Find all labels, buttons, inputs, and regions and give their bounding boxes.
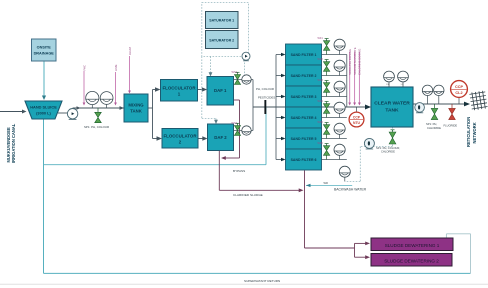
tank: sludge dewatering 1: [371, 238, 453, 251]
wire: lime dosing line: [114, 64, 118, 105]
instrument: DAF 1 outlet meter: [242, 75, 251, 84]
tank: sand filter 1: [286, 44, 322, 65]
svg-text:SATURATOR 1: SATURATOR 1: [209, 18, 234, 22]
svg-text:ONSITE: ONSITE: [37, 46, 52, 50]
svg-text:WF1: WF1: [318, 37, 324, 40]
pump P2: saturator recycle pump: [242, 52, 250, 61]
svg-text:SATURATOR 2: SATURATOR 2: [209, 38, 234, 42]
tank: sand filter 2: [286, 65, 322, 86]
wire: onsite drainage downpipe: [42, 61, 46, 100]
svg-text:SUPERNATANT RETURN: SUPERNATANT RETURN: [244, 279, 280, 283]
label: fluoride dosing: [444, 123, 458, 127]
svg-text:WF2: WF2: [318, 58, 324, 61]
instrument: sand filter 4 outlet meter: [334, 102, 345, 117]
svg-text:SP1: PH, COLOUR: SP1: PH, COLOUR: [84, 125, 109, 129]
svg-text:SODA ASH DOSING: SODA ASH DOSING: [348, 49, 352, 75]
wire: soda ash dosing line: [348, 49, 352, 105]
pump P3: high lift pump: [415, 103, 425, 113]
svg-text:LIME: LIME: [114, 64, 118, 71]
label: WF3: [318, 79, 324, 82]
label: bypass: [233, 169, 245, 173]
svg-text:PH, COLOUR: PH, COLOUR: [256, 87, 274, 91]
wire: sand filter feed header: [276, 53, 286, 162]
label: WS1: [232, 70, 238, 74]
svg-text:NTU: NTU: [353, 121, 361, 125]
svg-text:WF5: WF5: [318, 121, 324, 124]
valve WF2: sand filter 2 outlet valve: [323, 60, 329, 76]
tank: sand filter 6: [286, 149, 322, 170]
label: WF6: [318, 142, 324, 145]
svg-text:SAND FILTER 1: SAND FILTER 1: [291, 53, 317, 57]
node: critical control point CCP NTU: [349, 107, 364, 127]
label: WF1: [318, 37, 324, 40]
tank: flocculator 1: [161, 80, 198, 102]
tank: sand filter 4: [286, 107, 322, 128]
pump P4: backwash pump: [364, 138, 374, 149]
valve V1: raw water sample valve: [95, 108, 102, 123]
instrument: sand filter 1 outlet meter: [334, 39, 345, 54]
svg-text:FR: FR: [387, 84, 390, 86]
valve WF6: sand filter 6 outlet valve: [323, 144, 329, 160]
svg-text:SAND FILTER 2: SAND FILTER 2: [291, 74, 317, 78]
instrument: treated water meter 2: [434, 85, 444, 104]
wire: backwash supply dashed from clear water tank: [345, 127, 393, 181]
instrument: DAF 2 outlet meter: [242, 126, 251, 135]
svg-text:SAND FILTER 5: SAND FILTER 5: [291, 137, 317, 141]
label: settled water quality: [256, 87, 275, 100]
wire: alum dosing line to mixing tank: [128, 47, 132, 94]
instrument: raw water meter 2: [100, 92, 113, 108]
valve WS2: DAF 2 outlet valve: [234, 123, 240, 135]
valve V11: chloride dosing valve: [431, 104, 438, 120]
tank: DAF 2: [208, 124, 234, 151]
wire: clarified sludge main: [219, 151, 303, 193]
svg-text:HAND SLUICE: HAND SLUICE: [30, 105, 57, 110]
svg-text:BYPASS: BYPASS: [233, 169, 245, 173]
label: irrigation canal source: [6, 123, 16, 163]
node: sample point marker on settled water main: [264, 100, 266, 114]
tank: sand filter 3: [286, 86, 322, 107]
node: reticulation network symbol: [469, 90, 488, 110]
valve WF1: sand filter 1 outlet valve: [323, 39, 329, 55]
svg-text:SLUDGE DEWATERING 1: SLUDGE DEWATERING 1: [385, 243, 440, 248]
instrument: clear water tank level meter 1: [384, 71, 395, 87]
label: backwash water: [334, 188, 367, 192]
tank: mixing tank: [124, 94, 148, 122]
svg-text:MIXING: MIXING: [128, 103, 144, 108]
label: WF4: [318, 100, 324, 103]
svg-text:PESTICIDES: PESTICIDES: [258, 95, 275, 99]
svg-text:CHLORIDE: CHLORIDE: [427, 126, 441, 130]
svg-text:TANK: TANK: [130, 109, 143, 114]
instrument: sand filter 5 outlet meter: [334, 123, 345, 138]
wire: DAF 1 outlet: [234, 79, 254, 81]
svg-text:DAF 1: DAF 1: [214, 88, 227, 93]
svg-text:SP1: PH, COLOUR,: SP1: PH, COLOUR,: [376, 146, 400, 150]
valve V12: fluoride dosing valve: [449, 104, 456, 120]
wire: backwash water line: [306, 184, 352, 187]
svg-text:SAND FILTER 6: SAND FILTER 6: [291, 158, 317, 162]
instrument: clear water tank level meter 2: [398, 71, 409, 87]
svg-text:WS2: WS2: [232, 121, 238, 125]
svg-text:FLOCCULATOR: FLOCCULATOR: [162, 85, 196, 90]
instrument: sand filter 6 outlet meter: [334, 144, 345, 159]
label: supernatant return: [244, 279, 280, 283]
wire: clarified sludge from DAF 1: [221, 100, 240, 160]
svg-text:NETWORK: NETWORK: [472, 122, 477, 143]
wire: DAF 2 outlet: [234, 130, 254, 132]
svg-text:WF4: WF4: [318, 100, 324, 103]
valve WS1: DAF 1 outlet valve: [234, 72, 240, 84]
svg-text:SODIUM ALUMINATE: SODIUM ALUMINATE: [353, 47, 357, 75]
tank: onsite drainage: [32, 39, 57, 61]
svg-text:TANK: TANK: [385, 108, 399, 114]
svg-text:CL2: CL2: [455, 91, 462, 95]
valve WF4: sand filter 4 outlet valve: [323, 102, 329, 118]
svg-text:RETICULATION: RETICULATION: [466, 117, 471, 147]
tank: flocculator 2: [162, 129, 198, 149]
wire: page footer rule: [0, 283, 488, 285]
label: WS2: [232, 121, 238, 125]
wire: treated water line to reticulation: [413, 102, 470, 107]
wire: bypass line: [44, 107, 267, 165]
label: chloride dosing: [426, 122, 441, 130]
wire: supernatant return line: [44, 119, 471, 273]
tank: sludge dewatering 2: [371, 254, 452, 267]
tank: hand sluice (raw water inlet works): [25, 101, 62, 119]
label: WR: [324, 181, 328, 185]
label: backwash sample point: [376, 146, 400, 154]
instrument: sand filter 2 outlet meter: [334, 60, 345, 75]
instrument: sand filter 3 outlet meter: [334, 81, 345, 96]
svg-text:SAND FILTER 3: SAND FILTER 3: [291, 95, 317, 99]
wire: raw water main (sluice to mixing tank): [58, 106, 124, 113]
svg-text:DAF 2: DAF 2: [214, 135, 227, 140]
instrument: treated water meter 1: [422, 85, 432, 104]
svg-text:BACKWASH WATER: BACKWASH WATER: [334, 188, 367, 192]
svg-text:WF6: WF6: [318, 142, 324, 145]
wire: sand filter outlet lines and collector header: [322, 55, 347, 160]
tank: sand filter 5: [286, 128, 322, 149]
wire: settled water main to clear water tank: [253, 105, 371, 110]
svg-text:CHLORINE DOSING: CHLORINE DOSING: [358, 49, 362, 75]
svg-text:SAND FILTER 4: SAND FILTER 4: [291, 116, 317, 120]
label: sample point SP1: [84, 125, 109, 129]
wire: polymer dosing line: [353, 47, 357, 105]
svg-text:WS1: WS1: [232, 70, 238, 74]
svg-text:CLEAR WATER: CLEAR WATER: [374, 101, 410, 107]
svg-text:SLUDGE DEWATERING 2: SLUDGE DEWATERING 2: [384, 258, 439, 263]
wire: DAF outlet collector: [252, 80, 254, 131]
svg-text:FLUORIDE: FLUORIDE: [444, 123, 458, 127]
wire: saturator recycle dashed loop: [202, 3, 249, 125]
tank: clear water tank: [371, 87, 413, 127]
tank: saturator 1: [206, 12, 239, 29]
svg-text:DRAINAGE: DRAINAGE: [34, 51, 55, 55]
wire: irrigation canal inlet: [0, 110, 27, 114]
svg-text:CLARIFIED SLUDGE: CLARIFIED SLUDGE: [233, 193, 263, 197]
wire: flocculator 2 to DAF 2: [198, 136, 208, 140]
svg-text:PAC: PAC: [82, 65, 86, 71]
tank: DAF 1: [207, 77, 234, 106]
valve WF3: sand filter 3 outlet valve: [323, 81, 329, 97]
valve WF5: sand filter 5 outlet valve: [323, 123, 329, 139]
svg-text:WR: WR: [324, 181, 328, 185]
valve V10: backwash supply valve: [389, 130, 396, 144]
wire: mixing tank outlet split to flocculators: [148, 87, 162, 141]
label: clarified sludge: [233, 193, 263, 197]
svg-text:SP1: PH,: SP1: PH,: [426, 122, 437, 126]
label: WF5: [318, 121, 324, 124]
svg-text:WF3: WF3: [318, 79, 324, 82]
svg-text:CCP: CCP: [455, 85, 463, 89]
svg-text:CHLORIDE: CHLORIDE: [381, 150, 395, 154]
svg-text:(3000 L): (3000 L): [36, 110, 51, 115]
label: meter tags: [387, 84, 405, 86]
svg-text:CCP: CCP: [353, 116, 361, 120]
wire: flocculator 1 to DAF 1: [198, 87, 208, 91]
svg-text:FLOCCULATOR: FLOCCULATOR: [163, 133, 197, 138]
pump P1: raw water pump: [67, 109, 77, 120]
label: reticulation network: [466, 117, 477, 147]
wire: PAC dosing line: [82, 65, 86, 106]
label: WF2: [318, 58, 324, 61]
instrument: backwash water meter: [339, 166, 350, 181]
wire: filter drain / sludge line to dewatering: [305, 171, 371, 260]
instrument: raw water meter 1: [86, 91, 99, 108]
wire: chlorine dosing line: [358, 49, 362, 106]
tank: saturator 2: [206, 31, 239, 49]
node: critical control point CCP CL2: [451, 81, 468, 104]
svg-text:IRRIGATION CANAL: IRRIGATION CANAL: [11, 123, 16, 163]
svg-text:ALUM: ALUM: [128, 47, 132, 55]
